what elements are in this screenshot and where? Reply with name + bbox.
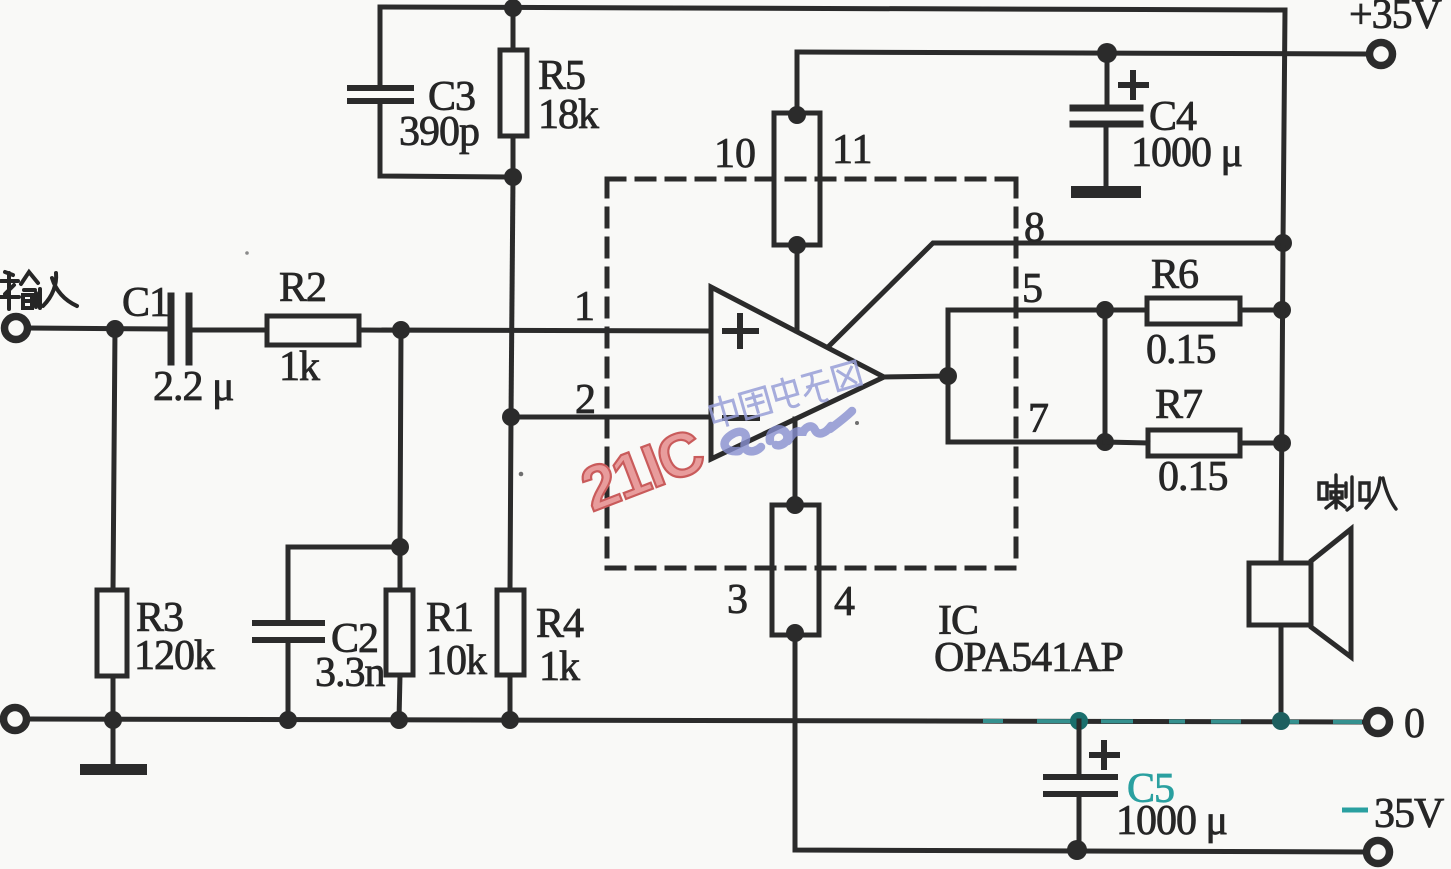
wire pin3/4 lead from op-amp (793, 419, 798, 505)
C5 plus polarity mark (1092, 743, 1117, 767)
node speaker junction teal (1272, 712, 1290, 730)
svg-text:OPA541AP: OPA541AP (934, 635, 1123, 681)
svg-text:1: 1 (574, 284, 595, 330)
node pin10/11 bottom (788, 236, 806, 254)
node rail junction R1 (390, 711, 408, 729)
ground (111, 720, 116, 764)
node R5 top junction (504, 0, 522, 17)
svg-text:0: 0 (1404, 701, 1424, 747)
op-amp U1 triangle (711, 287, 884, 459)
capacitor C2 (255, 623, 322, 640)
svg-text:7: 7 (1028, 396, 1049, 442)
node input junction (106, 320, 124, 338)
wire pin5-pin7 strap vertical (1103, 310, 1108, 442)
op-amp plus input symbol (725, 316, 756, 346)
wire 0V rail (27, 719, 1364, 722)
wire pin10/11 top lead (795, 52, 800, 115)
svg-text:C1: C1 (122, 280, 169, 326)
svg-text:1k: 1k (539, 644, 580, 690)
watermark blue com script (725, 411, 852, 451)
terminal input (5, 317, 28, 340)
wire teal overlay on 0V rail (985, 721, 1360, 722)
wire pin 5 (948, 308, 1105, 313)
resistor R4 (497, 590, 524, 675)
resistor R7 (1148, 430, 1240, 456)
node rail junction R3/ground (104, 711, 122, 729)
C4 plus polarity mark (1121, 73, 1146, 97)
svg-text:1000 μ: 1000 μ (1116, 798, 1227, 844)
svg-text:1000 μ: 1000 μ (1131, 130, 1242, 176)
resistor pin10-11 strap (774, 113, 820, 245)
wire pin 2 to op-amp (511, 415, 711, 420)
label -35V (teal minus) (1342, 808, 1368, 813)
wire op-amp output (884, 376, 948, 377)
capacitor C4 (1105, 53, 1110, 105)
svg-text:35V: 35V (1374, 791, 1444, 837)
svg-text:R7: R7 (1155, 382, 1202, 428)
svg-text:R1: R1 (426, 595, 473, 641)
node C5 junction teal (1070, 712, 1088, 730)
node rail junction C2 (279, 711, 297, 729)
wire C1 to R2 (192, 328, 267, 333)
wire C2 bottom lead (286, 640, 291, 720)
terminal -35V (1367, 841, 1390, 864)
svg-text:0.15: 0.15 (1146, 327, 1216, 373)
label speaker 喇叭 (1319, 475, 1396, 510)
svg-text:+35V: +35V (1349, 0, 1442, 38)
svg-text:1k: 1k (279, 344, 320, 390)
terminal 0V left (4, 708, 27, 731)
svg-text:11: 11 (832, 127, 872, 173)
node R7 right junction (1273, 434, 1291, 452)
svg-text:R4: R4 (536, 601, 584, 647)
wire C2 branch (288, 547, 400, 620)
wire R2 to op-amp pin 1 (359, 330, 711, 331)
terminal 0 (1367, 711, 1390, 734)
wire input to C1 (28, 328, 168, 329)
node pin3/4 bottom (786, 624, 804, 642)
capacitor C1 (171, 296, 189, 362)
node R6 right junction (1273, 301, 1291, 319)
svg-text:10k: 10k (426, 638, 487, 684)
resistor R2 (267, 316, 359, 345)
wire pin 7 (948, 440, 1105, 445)
wire output box vertical (946, 310, 951, 442)
svg-text:120k: 120k (134, 633, 215, 679)
resistor R5 (511, 8, 516, 50)
resistor R6 (1147, 298, 1240, 324)
watermark blue 中国电子网 (708, 357, 863, 432)
node R5/C3 junction (504, 168, 522, 186)
resistor R3 (97, 590, 127, 676)
svg-text:390p: 390p (399, 109, 479, 155)
wire C3 left branch (378, 7, 383, 86)
node pin7 junction (1096, 433, 1114, 451)
node C4 junction (1097, 43, 1117, 63)
wire right bus down to speaker (1281, 243, 1283, 563)
svg-text:3.3n: 3.3n (315, 650, 386, 696)
label input 输入 (0, 272, 77, 309)
svg-text:R6: R6 (1151, 252, 1198, 298)
scan speck artifacts (519, 472, 524, 477)
wire R5 junction down to pin2 net (511, 177, 513, 417)
terminal +35V (1370, 43, 1393, 66)
wire C3 bottom lead (380, 101, 513, 177)
svg-text:10: 10 (714, 131, 756, 177)
wire pin3/4 down to -35V rail (795, 635, 1366, 852)
svg-text:0.15: 0.15 (1158, 454, 1228, 500)
node pin10/11 top (788, 106, 806, 124)
svg-text:R2: R2 (279, 265, 326, 311)
wire pin 8 diagonal (828, 243, 1283, 347)
speaker 喇叭 (1249, 563, 1311, 625)
wire pin11 lead to op-amp (795, 245, 800, 331)
node pin2 junction (502, 408, 520, 426)
wire input shunt down (113, 329, 115, 590)
wire speaker to 0V rail (1279, 625, 1284, 721)
wire junction down to C2/R1 node (400, 330, 401, 547)
wire pin2 net down to R4 (510, 417, 511, 590)
node pin5 junction (1096, 301, 1114, 319)
node rail junction R4 (501, 711, 519, 729)
wire top rail (380, 7, 1285, 243)
resistor R1 (398, 547, 403, 590)
svg-text:4: 4 (834, 579, 855, 625)
node pin3/4 top (786, 496, 804, 514)
svg-text:2: 2 (575, 377, 596, 423)
capacitor C3 (350, 88, 411, 101)
node C5 bottom junction (1067, 840, 1087, 860)
op-amp minus input symbol (725, 415, 757, 421)
capacitor C5 (1077, 721, 1082, 774)
resistor pin3-4 strap (772, 505, 819, 635)
svg-text:8: 8 (1024, 205, 1045, 251)
node C2/R1 junction (391, 538, 409, 556)
svg-text:2.2 μ: 2.2 μ (153, 364, 234, 410)
svg-text:3: 3 (727, 577, 748, 623)
svg-text:21IC: 21IC (572, 416, 713, 525)
IC dashed boundary box (607, 179, 1016, 568)
wire +35V feed (797, 52, 1366, 54)
node pin8/bus junction (1274, 234, 1292, 252)
svg-text:5: 5 (1022, 266, 1043, 312)
node R2 output junction (392, 321, 410, 339)
svg-text:18k: 18k (538, 92, 599, 138)
node output junction (939, 367, 957, 385)
